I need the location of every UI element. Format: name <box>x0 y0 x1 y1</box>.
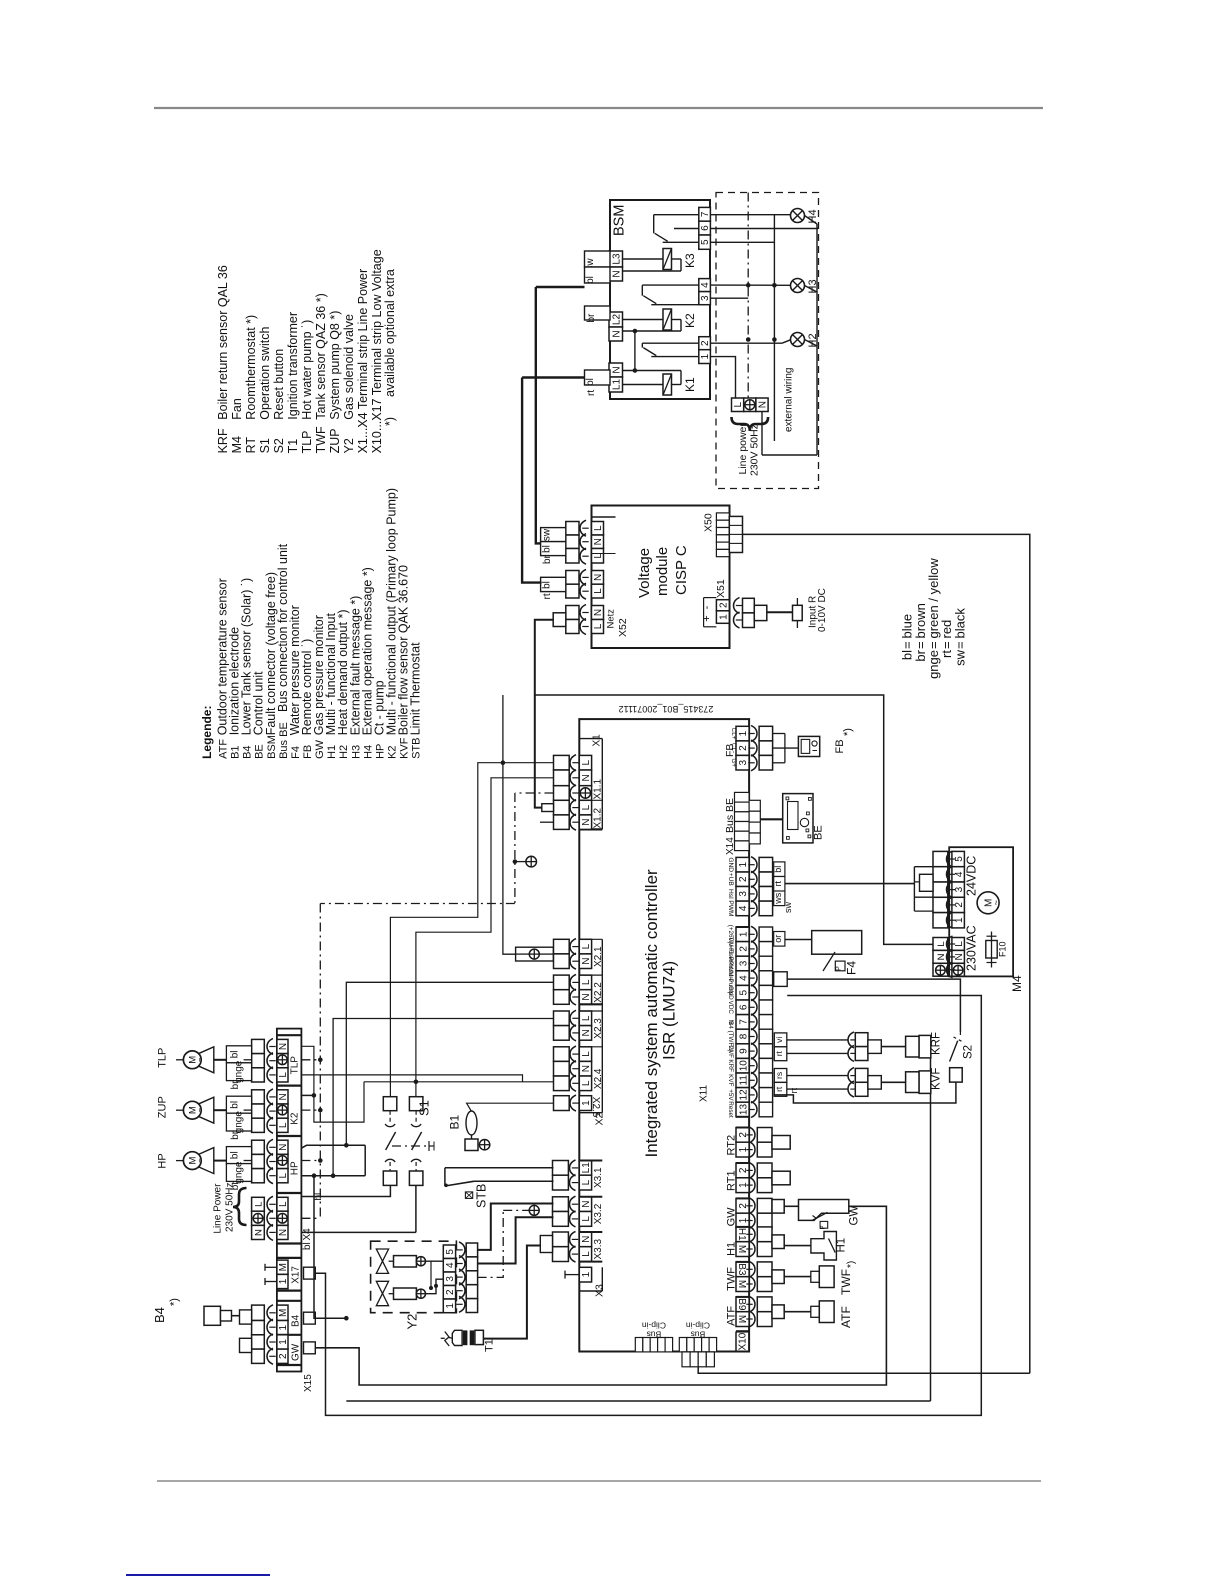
svg-text:KRF: KRF <box>931 1032 943 1055</box>
svg-text:br: br <box>586 313 597 323</box>
svg-text:2: 2 <box>738 876 749 882</box>
svg-text:Bus: Bus <box>647 1330 662 1340</box>
svg-text:ws: ws <box>773 892 783 904</box>
svg-text:STB: STB <box>475 1184 489 1208</box>
svg-text:Fan: Fan <box>230 398 244 420</box>
svg-text:HP: HP <box>374 744 386 759</box>
svg-text:X2: X2 <box>594 1112 606 1125</box>
svg-text:PWM: PWM <box>727 900 734 916</box>
svg-text:L: L <box>581 1251 592 1257</box>
svg-text:L3: L3 <box>611 253 622 265</box>
svg-text:L: L <box>253 1202 264 1207</box>
svg-text:Line Power: Line Power <box>213 1183 224 1234</box>
svg-text:FB: FB <box>724 744 736 757</box>
svg-text:1: 1 <box>738 861 749 867</box>
svg-text:gnge: gnge <box>234 1161 245 1184</box>
svg-text:bl: bl <box>230 1151 241 1159</box>
svg-text:FB: FB <box>834 739 846 753</box>
svg-text:L: L <box>278 1201 289 1207</box>
svg-text:L1: L1 <box>581 1162 592 1174</box>
svg-text:Limit Thermostat: Limit Thermostat <box>409 642 423 735</box>
svg-text:6: 6 <box>700 225 711 231</box>
svg-text:3: 3 <box>700 295 711 301</box>
svg-text:X51: X51 <box>715 579 727 598</box>
svg-text:bl: bl <box>302 1242 313 1250</box>
svg-text:TWF: TWF <box>314 426 328 453</box>
svg-text:T1: T1 <box>286 439 300 454</box>
svg-text:X3.1: X3.1 <box>593 1167 604 1188</box>
svg-text:3: 3 <box>738 759 749 765</box>
svg-text:System pump Q8 *): System pump Q8 *) <box>328 311 342 420</box>
svg-text:L: L <box>581 1051 592 1057</box>
svg-text:HsI: HsI <box>727 889 734 899</box>
svg-text:*): *) <box>383 417 397 426</box>
svg-text:TWF: TWF <box>839 1269 853 1295</box>
svg-text:4: 4 <box>954 871 965 877</box>
svg-text:K2: K2 <box>683 313 697 328</box>
svg-text:230V 50Hz: 230V 50Hz <box>749 424 761 476</box>
svg-text:S2: S2 <box>963 1045 975 1059</box>
svg-text:H4: H4 <box>362 745 374 759</box>
svg-text:HP: HP <box>157 1153 169 1168</box>
svg-text:module: module <box>654 547 671 596</box>
svg-text:L: L <box>593 623 604 629</box>
svg-text:4: 4 <box>738 905 749 911</box>
svg-text:TWF: TWF <box>727 1044 734 1058</box>
svg-text:L: L <box>593 588 604 594</box>
svg-text:5: 5 <box>954 856 965 862</box>
svg-text:bl: bl <box>585 378 596 386</box>
svg-text:X4: X4 <box>302 1228 313 1241</box>
svg-text:B1: B1 <box>448 1114 462 1129</box>
svg-text:M: M <box>278 1263 289 1271</box>
svg-text:ATF: ATF <box>218 739 230 759</box>
svg-text:L: L <box>581 943 592 949</box>
svg-text:rt: rt <box>542 593 553 599</box>
svg-text:X15: X15 <box>303 1374 314 1392</box>
svg-text:rt: rt <box>774 1050 784 1056</box>
svg-text:X1.1: X1.1 <box>593 778 604 799</box>
svg-text:ATF: ATF <box>726 1306 738 1326</box>
svg-text:vi: vi <box>774 1037 784 1043</box>
svg-text:K3: K3 <box>683 253 697 268</box>
svg-text:2: 2 <box>954 902 965 908</box>
svg-text:1: 1 <box>445 1303 456 1309</box>
svg-text:rt: rt <box>773 881 783 887</box>
svg-text:N: N <box>581 1236 592 1243</box>
svg-text:*): *) <box>846 1261 857 1268</box>
svg-text:X3.3: X3.3 <box>593 1238 604 1259</box>
svg-text:N: N <box>611 330 622 337</box>
svg-text:11: 11 <box>738 1075 749 1086</box>
svg-text:X1: X1 <box>592 734 603 747</box>
svg-text:VDC: VDC <box>727 1001 734 1015</box>
svg-text:X3.2: X3.2 <box>593 1203 604 1224</box>
svg-text:X10: X10 <box>738 1332 749 1350</box>
svg-text:ZUP: ZUP <box>328 428 342 453</box>
svg-text:N: N <box>581 1065 592 1072</box>
svg-text:STB: STB <box>411 737 423 758</box>
svg-text:1: 1 <box>954 917 965 923</box>
svg-text:Netz: Netz <box>606 609 617 629</box>
svg-text:*): *) <box>169 1298 181 1306</box>
svg-text:Hot water pump ˙): Hot water pump ˙) <box>300 320 314 420</box>
svg-text:rt: rt <box>789 1087 799 1093</box>
svg-text:T1: T1 <box>484 1339 496 1352</box>
svg-text:F4: F4 <box>290 746 302 759</box>
svg-text:3: 3 <box>738 891 749 897</box>
svg-text:BSM: BSM <box>266 735 278 759</box>
svg-text:GND: GND <box>727 857 734 872</box>
svg-text:M: M <box>736 1315 747 1323</box>
svg-text:4: 4 <box>445 1262 456 1268</box>
svg-text:external wiring: external wiring <box>784 368 795 432</box>
svg-text:X52: X52 <box>617 618 629 637</box>
svg-text:CL+: CL+ <box>730 728 737 740</box>
svg-text:Bus: Bus <box>691 1330 706 1340</box>
svg-text:N: N <box>581 958 592 965</box>
svg-text:10: 10 <box>738 1060 749 1072</box>
svg-text:TLP: TLP <box>300 430 314 453</box>
svg-text:12: 12 <box>738 1089 749 1101</box>
svg-text:X17: X17 <box>291 1266 302 1284</box>
svg-text:Reset: Reset <box>727 1101 734 1118</box>
svg-text:-: - <box>701 605 713 609</box>
svg-text:N: N <box>936 953 947 960</box>
svg-text:N: N <box>611 270 622 277</box>
svg-text:B9: B9 <box>736 1298 747 1311</box>
svg-text:bl: bl <box>542 545 553 553</box>
svg-text:N: N <box>278 1229 289 1236</box>
svg-text:Ignition transformer: Ignition transformer <box>286 312 300 420</box>
svg-text:1: 1 <box>719 614 730 620</box>
svg-text:L: L <box>581 759 592 765</box>
svg-text:1: 1 <box>278 1324 289 1330</box>
svg-text:H3: H3 <box>350 745 362 759</box>
svg-text:K1: K1 <box>683 377 697 392</box>
svg-text:H1: H1 <box>836 1238 848 1253</box>
svg-text:N: N <box>581 774 592 781</box>
svg-text:L: L <box>581 1080 592 1086</box>
svg-text:N: N <box>581 1200 592 1207</box>
svg-text:N: N <box>253 1229 264 1236</box>
svg-text:L: L <box>593 525 604 531</box>
svg-text:H1: H1 <box>326 745 338 759</box>
svg-text:Clip-in: Clip-in <box>642 1321 666 1331</box>
svg-text:RT2: RT2 <box>726 1135 738 1156</box>
svg-text:1: 1 <box>278 1278 289 1284</box>
svg-text:5: 5 <box>445 1249 456 1255</box>
svg-text:7: 7 <box>738 1019 749 1025</box>
svg-text:N: N <box>581 993 592 1000</box>
svg-text:rt: rt <box>586 390 597 396</box>
svg-text:1: 1 <box>738 931 749 937</box>
svg-text:~: ~ <box>991 900 1001 905</box>
svg-text:9: 9 <box>738 1048 749 1054</box>
svg-text:L: L <box>581 979 592 985</box>
svg-text:N: N <box>593 609 604 616</box>
svg-text:bl: bl <box>542 581 553 589</box>
svg-text:5: 5 <box>700 239 711 245</box>
svg-text:ZUP: ZUP <box>157 1096 169 1118</box>
svg-text:Bus BE: Bus BE <box>724 798 736 833</box>
svg-text:KRF: KRF <box>216 428 230 453</box>
svg-text:X3: X3 <box>594 1284 606 1297</box>
svg-text:1: 1 <box>700 353 711 359</box>
svg-text:L: L <box>733 401 744 407</box>
svg-text:=: = <box>952 641 967 649</box>
svg-text:7: 7 <box>700 211 711 217</box>
svg-text:13: 13 <box>738 1104 749 1116</box>
svg-text:Reset button: Reset button <box>272 349 286 420</box>
svg-text:L: L <box>278 1072 289 1078</box>
svg-text:X10...X17 Terminal strip Low V: X10...X17 Terminal strip Low Voltage <box>370 249 384 453</box>
svg-text:KRF: KRF <box>727 1059 734 1072</box>
svg-text:2: 2 <box>719 602 730 608</box>
svg-text:sw: sw <box>952 649 967 666</box>
svg-text:L: L <box>581 1015 592 1021</box>
svg-text:N: N <box>278 1043 289 1050</box>
svg-text:H1: H1 <box>736 1228 747 1241</box>
svg-text:2: 2 <box>738 745 749 751</box>
svg-text:GW: GW <box>849 1206 861 1226</box>
svg-text:B4: B4 <box>242 745 254 758</box>
svg-text:S2: S2 <box>272 438 286 453</box>
svg-text:sw: sw <box>542 528 553 541</box>
svg-text:N: N <box>611 366 622 373</box>
svg-text:N: N <box>581 1029 592 1036</box>
svg-text:4: 4 <box>738 975 749 981</box>
svg-text:Boiler return sensor QAL 36: Boiler return sensor QAL 36 <box>216 265 230 420</box>
svg-text:Voltage: Voltage <box>636 548 653 598</box>
svg-text:X1.2: X1.2 <box>593 807 604 828</box>
svg-text:N: N <box>581 818 592 825</box>
svg-text:6: 6 <box>738 1004 749 1010</box>
svg-text:sw: sw <box>783 902 793 914</box>
svg-text:Y2: Y2 <box>405 1314 420 1330</box>
svg-text:FB: FB <box>302 745 314 759</box>
svg-text:B4: B4 <box>152 1307 167 1323</box>
svg-text:Tank sensor QAZ 36 *): Tank sensor QAZ 36 *) <box>314 293 328 419</box>
svg-text:H1: H1 <box>726 1242 738 1256</box>
svg-text:GW: GW <box>291 1343 302 1361</box>
svg-text:+5V: +5V <box>727 1089 734 1101</box>
svg-text:4: 4 <box>700 282 711 288</box>
svg-text:L2: L2 <box>611 314 622 326</box>
svg-text:rt: rt <box>774 1086 784 1092</box>
svg-text:X1...X4 Terminal strip Line: X1...X4 Terminal strip Line Power <box>356 269 370 454</box>
svg-text:gnge: gnge <box>234 1060 245 1083</box>
svg-text:ISR (LMU74): ISR (LMU74) <box>660 961 679 1060</box>
svg-text:black: black <box>952 608 967 639</box>
svg-text:N: N <box>593 538 604 545</box>
svg-text:~: ~ <box>196 1158 205 1163</box>
svg-text:L: L <box>581 804 592 810</box>
svg-text:GND: GND <box>727 986 734 1000</box>
svg-text:M: M <box>736 1280 747 1288</box>
svg-text:5: 5 <box>738 989 749 995</box>
svg-text:bl: bl <box>230 1051 241 1059</box>
svg-text:230V 50Hz: 230V 50Hz <box>225 1183 236 1232</box>
svg-text:~: ~ <box>196 1108 205 1113</box>
svg-text:Roomthermostat *): Roomthermostat *) <box>244 315 258 420</box>
svg-text:B3: B3 <box>736 1263 747 1276</box>
svg-text:N: N <box>278 1144 289 1151</box>
svg-text:TLP: TLP <box>290 1056 301 1075</box>
svg-text:rs: rs <box>774 1072 784 1079</box>
svg-text:M: M <box>736 1245 747 1253</box>
svg-text:X14: X14 <box>725 837 736 855</box>
svg-text:N: N <box>758 401 769 408</box>
svg-text:L: L <box>278 1172 289 1178</box>
svg-text:KVF: KVF <box>399 737 411 759</box>
svg-text:N: N <box>954 953 965 960</box>
svg-text:K2: K2 <box>290 1112 301 1125</box>
svg-text:3: 3 <box>954 886 965 892</box>
svg-text:L1: L1 <box>611 379 622 391</box>
svg-text:L: L <box>581 1179 592 1185</box>
svg-text:P: P <box>836 966 843 971</box>
svg-text:br: br <box>542 554 553 564</box>
svg-text:S1: S1 <box>417 1100 432 1116</box>
svg-text:1: 1 <box>278 1339 289 1345</box>
svg-text:+UB: +UB <box>727 873 734 887</box>
svg-text:+: + <box>701 615 713 621</box>
svg-text:br: br <box>230 1130 241 1140</box>
svg-text:M: M <box>278 1309 289 1317</box>
svg-text:RT: RT <box>244 437 258 454</box>
svg-text:8: 8 <box>738 1033 749 1039</box>
svg-text:Line power: Line power <box>737 423 749 475</box>
svg-text:N: N <box>593 574 604 581</box>
svg-text:CISP C: CISP C <box>673 545 690 595</box>
svg-text:BSM: BSM <box>612 205 628 236</box>
svg-text:~: ~ <box>196 1057 205 1062</box>
svg-text:bl: bl <box>773 866 783 873</box>
svg-text:M4: M4 <box>230 436 244 453</box>
svg-text:S1: S1 <box>258 438 272 453</box>
svg-text:2: 2 <box>700 340 711 346</box>
svg-text:1: 1 <box>581 1271 592 1277</box>
svg-text:H2: H2 <box>338 745 350 759</box>
svg-text:BE: BE <box>813 825 825 840</box>
svg-text:P: P <box>821 1225 827 1229</box>
svg-text:Operation switch: Operation switch <box>258 327 272 420</box>
svg-text:G+: G+ <box>730 758 737 767</box>
svg-text:GW: GW <box>314 739 326 759</box>
svg-text:Integrated system automatic co: Integrated system automatic controller <box>642 869 661 1158</box>
svg-text:Clip-in: Clip-in <box>686 1321 710 1331</box>
svg-text:*): *) <box>842 728 854 736</box>
svg-text:B1: B1 <box>230 745 242 758</box>
svg-text:2: 2 <box>278 1353 289 1359</box>
svg-text:2: 2 <box>445 1289 456 1295</box>
svg-text:br: br <box>230 1080 241 1090</box>
svg-text:K2: K2 <box>387 745 399 758</box>
svg-text:Legende:: Legende: <box>200 706 214 759</box>
svg-text:BE: BE <box>254 744 266 759</box>
svg-text:273415_B01_20071112: 273415_B01_20071112 <box>619 704 714 714</box>
svg-text:0-10V DC: 0-10V DC <box>817 588 828 632</box>
svg-text:gnge: gnge <box>234 1111 245 1134</box>
svg-text:L: L <box>581 1216 592 1222</box>
svg-text:3: 3 <box>738 960 749 966</box>
svg-text:1: 1 <box>738 730 749 736</box>
svg-text:L: L <box>954 941 965 947</box>
svg-text:X11: X11 <box>699 1085 710 1102</box>
svg-text:Gas solenoid valve: Gas solenoid valve <box>342 314 356 420</box>
svg-text:B4: B4 <box>291 1314 302 1327</box>
svg-text:GW: GW <box>726 1207 738 1227</box>
svg-text:Y2: Y2 <box>342 438 356 453</box>
svg-text:3: 3 <box>445 1276 456 1282</box>
svg-text:HP: HP <box>290 1161 301 1175</box>
svg-text:F10: F10 <box>998 941 1008 957</box>
svg-text:24VDC: 24VDC <box>965 856 979 896</box>
svg-text:N: N <box>278 1093 289 1100</box>
svg-text:bl: bl <box>230 1101 241 1109</box>
svg-text:X50: X50 <box>703 513 715 532</box>
svg-text:L: L <box>936 941 947 946</box>
svg-text:L: L <box>278 1122 289 1128</box>
svg-text:TWF: TWF <box>726 1267 738 1291</box>
svg-text:or: or <box>773 935 783 943</box>
svg-text:KVF: KVF <box>931 1068 943 1090</box>
svg-text:230VAC: 230VAC <box>965 925 979 971</box>
svg-text:RT1: RT1 <box>726 1170 738 1191</box>
svg-text:KVF: KVF <box>727 1074 734 1086</box>
svg-text:TLP: TLP <box>157 1048 169 1068</box>
svg-text:bl: bl <box>585 276 596 284</box>
svg-text:ATF: ATF <box>839 1306 853 1328</box>
svg-text:2: 2 <box>738 946 749 952</box>
svg-text:available optional extra: available optional extra <box>383 269 397 397</box>
svg-text:F4: F4 <box>845 961 859 975</box>
svg-text:M4: M4 <box>1010 975 1024 992</box>
